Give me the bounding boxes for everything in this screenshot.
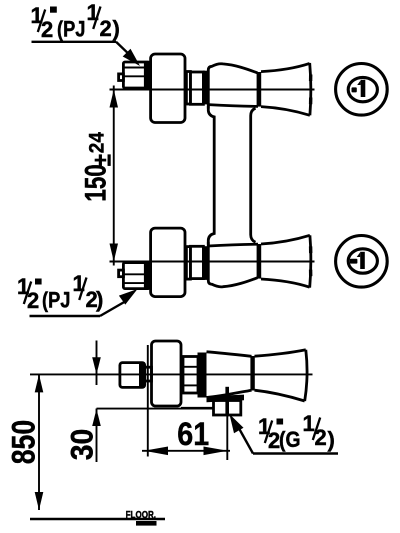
svg-text:850: 850 <box>6 420 42 464</box>
svg-text:±: ± <box>90 154 117 166</box>
svg-text:(PJ: (PJ <box>42 289 70 313</box>
svg-text:30: 30 <box>65 429 100 461</box>
svg-text:): ) <box>328 427 335 452</box>
svg-text:2: 2 <box>315 425 327 450</box>
svg-text:FLOOR.: FLOOR. <box>126 509 156 520</box>
svg-text:(PJ: (PJ <box>57 18 85 42</box>
svg-text:61: 61 <box>177 415 209 452</box>
svg-text:(G: (G <box>279 428 301 452</box>
svg-text:2: 2 <box>41 17 53 42</box>
svg-text:2: 2 <box>27 288 39 313</box>
svg-text:24: 24 <box>85 131 108 153</box>
svg-text:): ) <box>113 16 120 41</box>
svg-text:150: 150 <box>78 164 112 201</box>
svg-text:2: 2 <box>100 16 112 41</box>
svg-text:1: 1 <box>303 411 315 436</box>
svg-text:): ) <box>96 287 103 312</box>
